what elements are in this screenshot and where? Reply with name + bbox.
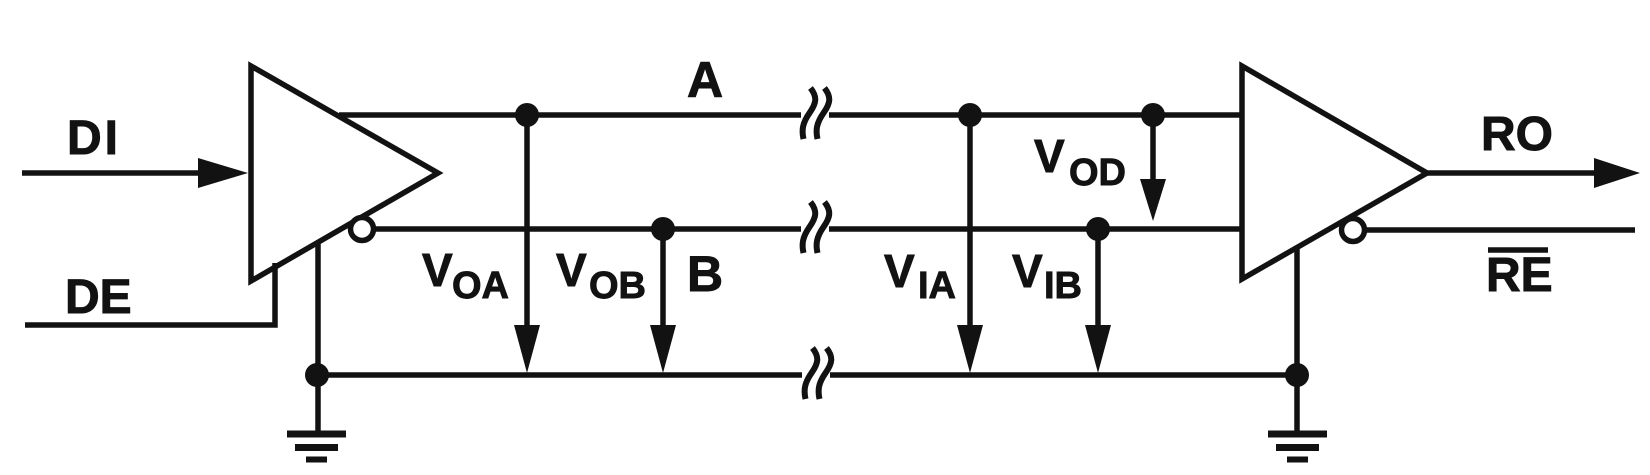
VOA arrow <box>524 115 530 330</box>
svg-text:RO: RO <box>1481 108 1553 161</box>
ground (receiver) <box>1268 434 1327 460</box>
svg-text:V: V <box>556 244 587 296</box>
VOD arrow <box>1150 115 1156 185</box>
node B / VOB junction <box>651 217 675 241</box>
VIA arrow <box>967 115 973 330</box>
VIB arrow <box>1095 229 1101 330</box>
svg-text:IA: IA <box>918 265 956 307</box>
wire driver ground stub <box>315 242 321 433</box>
svg-text:OD: OD <box>1069 152 1126 194</box>
node receiver ground junction <box>1285 363 1309 387</box>
driver inverting bubble <box>351 218 374 241</box>
svg-text:B: B <box>687 246 723 302</box>
svg-text:V: V <box>1034 130 1065 182</box>
VOB arrow <box>660 229 666 330</box>
line break on B <box>803 202 830 253</box>
line break on ground rail <box>805 348 832 399</box>
svg-text:RE: RE <box>1486 249 1553 302</box>
svg-text:A: A <box>687 52 723 108</box>
svg-text:OA: OA <box>452 265 509 307</box>
RO arrowhead <box>1594 158 1640 188</box>
node A / VOA junction <box>515 103 539 127</box>
wire line B left segment <box>373 226 801 232</box>
wire ground rail left segment <box>317 372 802 378</box>
wire receiver ground stub <box>1294 248 1300 433</box>
svg-text:DI: DI <box>67 112 121 165</box>
svg-text:IB: IB <box>1044 265 1082 307</box>
receiver U2 <box>1242 66 1427 279</box>
wire DI input <box>22 170 204 176</box>
svg-text:V: V <box>1012 245 1043 297</box>
wire line B right segment <box>829 226 1242 232</box>
driver U1 <box>251 66 438 281</box>
receiver inverting bubble <box>1342 219 1365 242</box>
wire RE enable <box>1364 227 1635 233</box>
wire RO output <box>1427 170 1600 176</box>
svg-text:OB: OB <box>589 265 646 307</box>
svg-text:V: V <box>422 244 453 296</box>
wire DE input <box>25 263 275 325</box>
wire line A right segment <box>829 112 1242 118</box>
node driver ground junction <box>305 363 329 387</box>
wire ground rail right segment <box>830 372 1297 378</box>
node B / VIB junction <box>1086 217 1110 241</box>
DI arrowhead <box>198 158 248 188</box>
wire line A left segment <box>339 112 801 118</box>
line break on A <box>803 88 830 139</box>
node A / VOD junction <box>1141 103 1165 127</box>
svg-text:DE: DE <box>65 271 132 324</box>
node A / VIA junction <box>958 103 982 127</box>
ground (driver) <box>287 434 346 460</box>
svg-text:V: V <box>884 245 915 297</box>
